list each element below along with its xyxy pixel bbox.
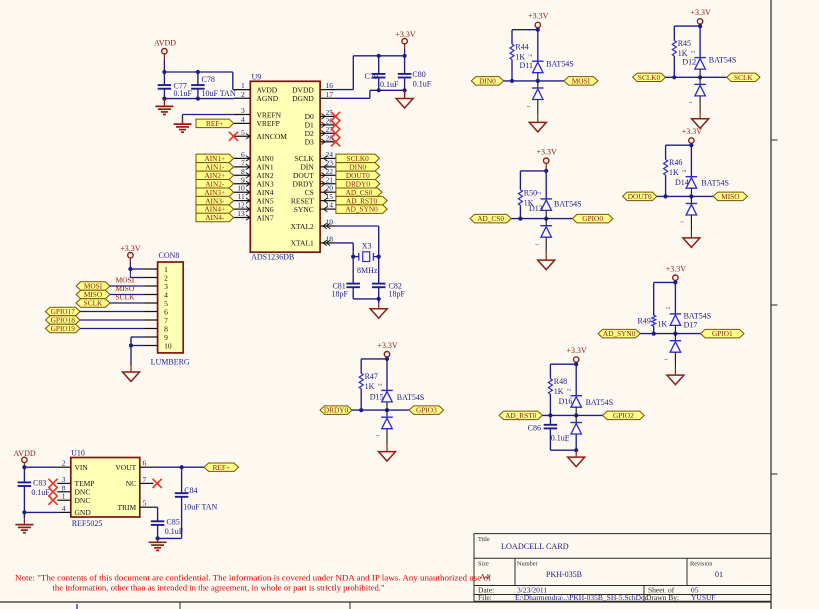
svg-text:17: 17: [326, 90, 334, 99]
svg-text:+3.3V: +3.3V: [377, 341, 398, 350]
svg-text:AIN7: AIN7: [257, 213, 274, 222]
svg-text:XTAL2: XTAL2: [291, 222, 314, 231]
svg-text:DNC: DNC: [75, 496, 91, 505]
svg-text:SCLK0: SCLK0: [638, 73, 661, 82]
svg-text:2: 2: [62, 459, 66, 468]
svg-text:D11: D11: [520, 61, 533, 70]
svg-text:1: 1: [688, 102, 693, 104]
svg-text:10: 10: [164, 341, 172, 350]
svg-text:YUSUF: YUSUF: [691, 593, 716, 602]
svg-text:1K: 1K: [554, 387, 564, 396]
svg-text:U9: U9: [252, 73, 262, 82]
svg-text:0.1uF: 0.1uF: [413, 79, 432, 88]
svg-text:ADS1236DB: ADS1236DB: [251, 253, 294, 262]
svg-text:14: 14: [326, 201, 334, 210]
svg-text:0.1uF: 0.1uF: [380, 80, 399, 89]
svg-text:6: 6: [143, 459, 147, 468]
svg-text:13: 13: [237, 209, 245, 218]
svg-text:MOSI: MOSI: [572, 77, 591, 86]
svg-text:C78: C78: [202, 75, 215, 84]
svg-text:1: 1: [375, 435, 380, 437]
svg-text:BAT54S: BAT54S: [684, 311, 712, 320]
svg-text:C86: C86: [528, 424, 541, 433]
svg-text:D13: D13: [529, 204, 543, 213]
svg-text:DOUT0: DOUT0: [628, 192, 652, 201]
svg-text:BAT54S: BAT54S: [709, 56, 737, 65]
svg-text:1: 1: [680, 221, 685, 223]
svg-text:GPIO19: GPIO19: [51, 324, 76, 333]
svg-text:0.1uF: 0.1uF: [165, 527, 184, 536]
svg-text:VIN: VIN: [75, 463, 89, 472]
svg-text:PKH-035B: PKH-035B: [546, 570, 582, 579]
svg-text:AD_CS0: AD_CS0: [477, 214, 504, 223]
svg-text:10uF TAN: 10uF TAN: [183, 503, 217, 512]
svg-text:AVDD: AVDD: [257, 85, 278, 94]
svg-text:01: 01: [715, 570, 723, 579]
svg-text:C85: C85: [166, 517, 179, 526]
svg-text:R47: R47: [365, 372, 378, 381]
svg-text:AD_RST0: AD_RST0: [505, 411, 537, 420]
svg-text:AIN4-: AIN4-: [205, 213, 225, 222]
svg-text:R50: R50: [524, 188, 537, 197]
svg-text:D15: D15: [370, 392, 384, 401]
svg-text:GPIO3: GPIO3: [416, 406, 437, 415]
svg-text:+3.3V: +3.3V: [690, 8, 711, 17]
svg-text:D12: D12: [682, 58, 696, 67]
svg-text:LUMBERG: LUMBERG: [151, 358, 190, 367]
svg-text:AGND: AGND: [257, 94, 279, 103]
svg-text:BAT54S: BAT54S: [586, 398, 614, 407]
svg-text:18: 18: [326, 234, 334, 243]
svg-text:DVDD: DVDD: [292, 85, 314, 94]
svg-text:+3.3V: +3.3V: [567, 346, 588, 355]
svg-text:1: 1: [534, 243, 539, 245]
svg-text:+3.3V: +3.3V: [120, 244, 141, 253]
svg-text:5: 5: [143, 499, 147, 508]
svg-text:REF5025: REF5025: [72, 519, 103, 528]
svg-text:+3.3V: +3.3V: [666, 264, 687, 273]
svg-text:R49: R49: [638, 316, 651, 325]
svg-text:18pF: 18pF: [331, 289, 348, 298]
svg-text:2: 2: [241, 90, 245, 99]
svg-text:16: 16: [326, 81, 334, 90]
svg-text:D14: D14: [675, 178, 689, 187]
svg-text:REF+: REF+: [206, 119, 224, 128]
svg-text:VOUT: VOUT: [115, 463, 136, 472]
svg-text:CON8: CON8: [159, 251, 180, 260]
svg-text:AINCOM: AINCOM: [257, 132, 288, 141]
svg-text:SCLK: SCLK: [734, 73, 753, 82]
svg-text:SYNC: SYNC: [294, 205, 314, 214]
svg-text:the information, other than as: the information, other than as intended …: [53, 584, 385, 593]
svg-text:BAT54S: BAT54S: [397, 393, 425, 402]
svg-text:GPIO1: GPIO1: [712, 329, 733, 338]
svg-text:7: 7: [143, 475, 147, 484]
svg-text:+3.3V: +3.3V: [537, 147, 558, 156]
svg-text:C84: C84: [184, 486, 197, 495]
svg-text:R45: R45: [678, 39, 691, 48]
svg-text:BAT54S: BAT54S: [701, 178, 729, 187]
svg-text:R46: R46: [669, 158, 682, 167]
svg-text:D16: D16: [559, 397, 573, 406]
svg-text:1: 1: [664, 358, 669, 360]
svg-text:BAT54S: BAT54S: [554, 200, 582, 209]
svg-text:E:\Dharmendra\..\PKH-035B_SH-5: E:\Dharmendra\..\PKH-035B_SH-5.SchDoc: [515, 593, 649, 602]
svg-text:4: 4: [241, 115, 245, 124]
svg-text:SCLK: SCLK: [84, 299, 103, 308]
svg-text:GPIO0: GPIO0: [582, 214, 603, 223]
svg-text:TRIM: TRIM: [117, 503, 136, 512]
svg-text:+3.3V: +3.3V: [528, 12, 549, 21]
svg-text:LOADCELL CARD: LOADCELL CARD: [501, 542, 569, 551]
svg-text:4: 4: [62, 504, 66, 513]
svg-text:10uF TAN: 10uF TAN: [202, 89, 236, 98]
svg-text:GPIO2: GPIO2: [613, 411, 634, 420]
svg-text:+3.3V: +3.3V: [682, 127, 703, 136]
svg-text:NC: NC: [126, 479, 136, 488]
svg-text:8MHz: 8MHz: [357, 266, 378, 275]
svg-text:SCLK: SCLK: [116, 293, 136, 302]
svg-text:0.1uF: 0.1uF: [174, 89, 193, 98]
svg-text:R44: R44: [515, 43, 528, 52]
svg-text:Size: Size: [478, 561, 489, 568]
svg-text:C83: C83: [33, 479, 46, 488]
svg-text:DRDY0: DRDY0: [324, 406, 349, 415]
svg-text:D3: D3: [305, 138, 314, 147]
svg-text:AD_SYN0: AD_SYN0: [345, 205, 378, 214]
svg-text:18pF: 18pF: [389, 289, 406, 298]
svg-text:MISO: MISO: [721, 192, 739, 201]
svg-text:+3.3V: +3.3V: [395, 30, 416, 39]
svg-text:C79: C79: [365, 72, 378, 81]
svg-text:3: 3: [241, 106, 245, 115]
svg-text:XTAL1: XTAL1: [291, 239, 314, 248]
svg-text:REF+: REF+: [213, 463, 231, 472]
svg-text:U10: U10: [71, 449, 85, 458]
svg-text:AVDD: AVDD: [154, 39, 176, 48]
svg-text:DIN0: DIN0: [479, 77, 496, 86]
svg-text:1K: 1K: [657, 320, 667, 329]
svg-text:1: 1: [62, 492, 66, 501]
svg-text:19: 19: [326, 218, 334, 227]
svg-text:Number: Number: [517, 561, 539, 568]
svg-text:DGND: DGND: [292, 94, 314, 103]
svg-text:D17: D17: [684, 321, 698, 330]
svg-text:Title: Title: [478, 536, 490, 543]
svg-text:R48: R48: [554, 377, 567, 386]
svg-text:Drawn By:: Drawn By:: [646, 593, 679, 602]
svg-text:1K: 1K: [365, 382, 375, 391]
svg-text:VREFP: VREFP: [257, 119, 280, 128]
svg-text:C80: C80: [412, 70, 425, 79]
svg-text:File:: File:: [478, 593, 492, 602]
svg-text:Revision: Revision: [690, 561, 713, 568]
svg-text:A4: A4: [480, 572, 489, 581]
svg-text:1: 1: [526, 105, 531, 107]
svg-text:1: 1: [241, 81, 245, 90]
svg-text:BAT54S: BAT54S: [546, 60, 574, 69]
svg-text:GND: GND: [75, 508, 92, 517]
svg-text:AD_SYN0: AD_SYN0: [603, 329, 636, 338]
svg-text:1K: 1K: [669, 168, 679, 177]
svg-text:0.1uF: 0.1uF: [551, 433, 570, 442]
svg-text:VREFN: VREFN: [257, 110, 282, 119]
svg-text:Note: "The contents of this do: Note: "The contents of this document are…: [15, 574, 491, 583]
svg-text:0.1uF: 0.1uF: [31, 488, 50, 497]
svg-text:5: 5: [241, 128, 245, 137]
svg-text:X3: X3: [362, 241, 372, 250]
